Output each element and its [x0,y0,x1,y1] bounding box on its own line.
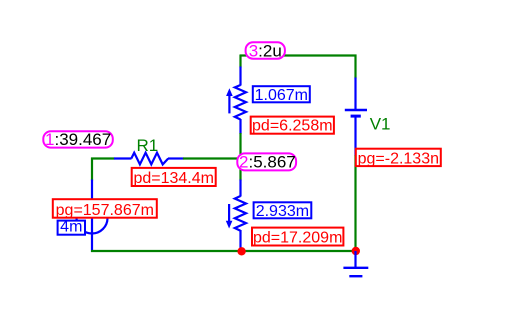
node 3 voltage label 3:2u [246,41,285,60]
wire middle branch blue lead to bottom junction [239,230,241,252]
wire R1 left blue lead [114,157,132,159]
wire V1 top blue lead [354,78,356,110]
resistor R1 zigzag [131,153,168,165]
current arrow down (lower resistor) [226,204,233,229]
value label current 2.933m [254,202,312,220]
wire middle branch blue lead above lower resistor [239,180,241,197]
value label power pg=157.867m [53,199,157,219]
value label current 1.067m [253,86,310,104]
wire left branch green segment [91,158,93,181]
wire left horizontal green from corner [91,157,115,159]
wire top horizontal (node 3) [240,54,357,56]
svg-text:1:39.467: 1:39.467 [45,130,111,149]
wire right branch green segment to ground junction [354,155,356,252]
value label power pd=134.4m [132,168,216,187]
svg-text:pg=-2.133n: pg=-2.133n [358,150,439,167]
wire green from R1 to node 2 junction [183,157,241,159]
value label power pd=6.258m [251,117,334,135]
svg-text:4m: 4m [60,219,82,236]
svg-text:pd=6.258m: pd=6.258m [252,117,333,134]
svg-text:pg=157.867m: pg=157.867m [56,202,154,219]
current arrow up (upper resistor) [226,88,233,113]
svg-text:R1: R1 [137,136,159,155]
svg-text:pd=17.209m: pd=17.209m [253,230,342,247]
wire middle branch upper blue lead [239,67,241,86]
value label current 4m [58,219,85,236]
svg-text:3:2u: 3:2u [249,41,282,60]
battery V1 plates [345,110,367,116]
resistor lower (middle branch) zigzag [235,196,246,231]
label R1 [137,136,159,155]
wire middle branch green segment at node 2 [239,133,241,181]
ground symbol [343,251,368,276]
svg-text:2.933m: 2.933m [256,203,309,220]
current source body (circle, mostly hidden behind labels) [77,203,108,234]
value label power pg=-2.133n [356,149,441,168]
svg-text:2:5.867: 2:5.867 [239,152,296,171]
wire middle branch top green segment [239,55,241,68]
node 2 voltage label 2:5.867 [237,152,296,171]
svg-text:pd=134.4m: pd=134.4m [133,170,214,187]
junction dot middle branch [237,247,245,255]
value label power pd=17.209m [252,228,343,247]
wire right branch green top segment [354,55,356,79]
label V1 [370,114,391,133]
wire middle branch blue lead below upper resistor [239,119,241,134]
wire V1 bottom blue lead [354,118,356,156]
wire left branch blue lead through current source [91,180,93,253]
wire R1 right blue lead [168,157,184,159]
node 1 voltage label 1:39.467 [43,130,113,149]
junction dot right branch [352,247,360,255]
svg-text:1.067m: 1.067m [255,87,308,104]
wire bottom horizontal (ground net) [91,250,356,252]
resistor upper (middle branch) zigzag [235,85,246,120]
svg-text:V1: V1 [370,114,391,133]
